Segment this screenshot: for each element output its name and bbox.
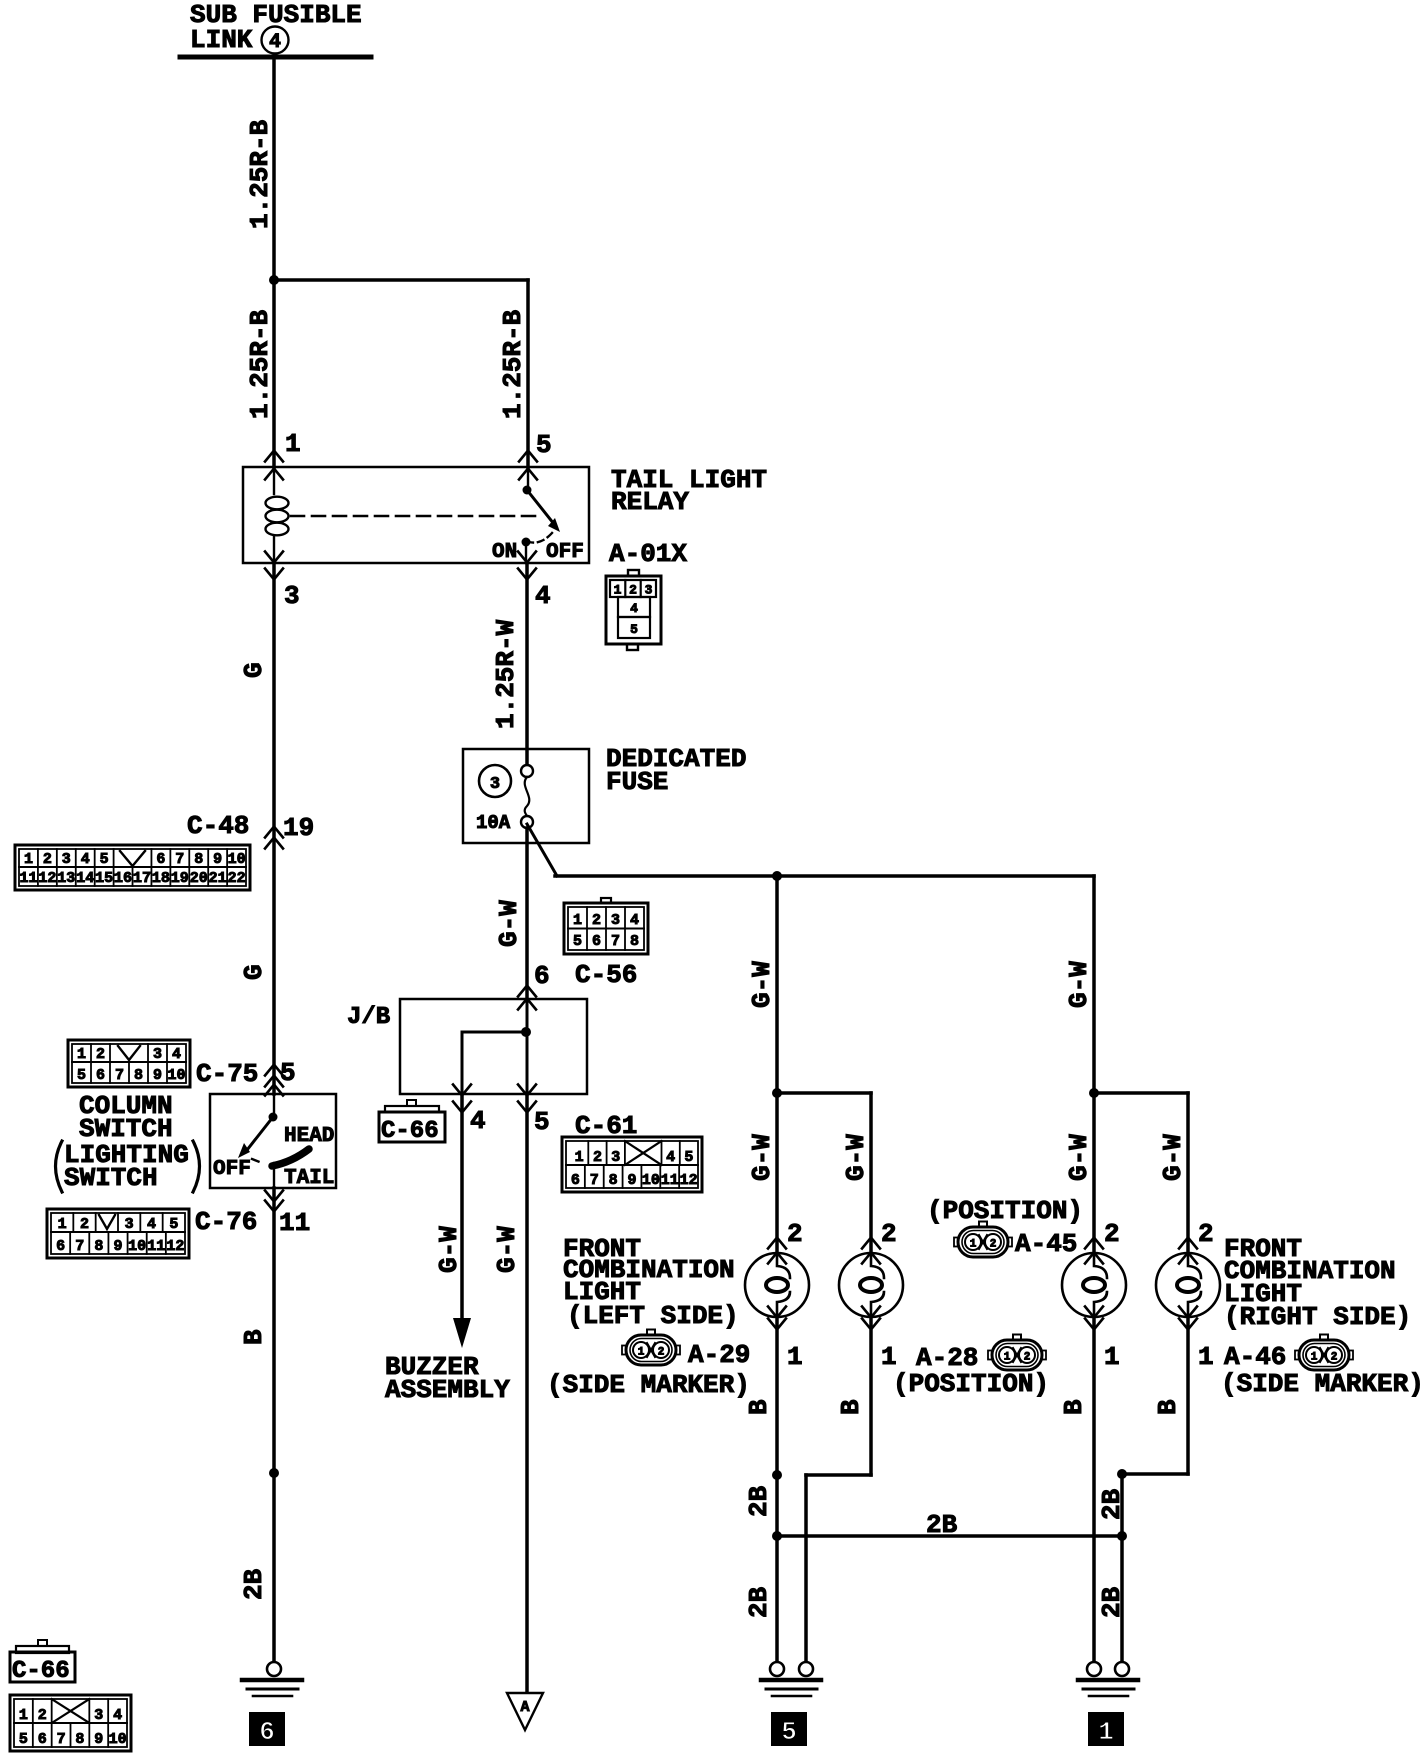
svg-text:G: G	[239, 964, 269, 980]
wire label G-W down branch	[492, 1226, 522, 1273]
ground ref box 5	[771, 1712, 807, 1747]
svg-text:8: 8	[630, 933, 639, 950]
column switch OFF label	[213, 1158, 251, 1181]
wire G from relay pin 3	[272, 563, 276, 1094]
svg-text:2: 2	[38, 1707, 47, 1724]
connector C-56 crossing arrows	[518, 986, 536, 1010]
connector A-45 label	[1015, 1229, 1077, 1259]
lamp front combination light right position bulb	[1062, 1238, 1126, 1330]
wire B lamp1 return	[775, 1317, 779, 1663]
svg-text:(SIDE MARKER): (SIDE MARKER)	[1221, 1369, 1424, 1399]
svg-text:5: 5	[536, 430, 552, 460]
svg-text:B: B	[744, 1399, 774, 1415]
relay pin 5 terminal arrows	[519, 451, 537, 480]
wire label 2B right lower	[1097, 1586, 1127, 1618]
relay actuation dashed link	[291, 515, 541, 518]
svg-text:2: 2	[1331, 1352, 1338, 1364]
junction block J/B box	[400, 999, 587, 1094]
connector C-48 label	[187, 811, 249, 841]
node junction left 2B	[269, 1468, 279, 1478]
svg-text:TAIL: TAIL	[284, 1167, 334, 1190]
svg-text:6: 6	[534, 961, 550, 991]
svg-text:1.25R-W: 1.25R-W	[491, 619, 521, 729]
svg-text:4: 4	[470, 1106, 486, 1136]
svg-text:2: 2	[80, 1216, 89, 1233]
node junction right branch split	[1089, 1088, 1099, 1098]
front combination light left label	[563, 1234, 739, 1331]
svg-text:1: 1	[1098, 1717, 1114, 1747]
svg-text:(POSITION): (POSITION)	[927, 1196, 1083, 1226]
junction block pin 4 arrows	[453, 1085, 471, 1113]
svg-text:10: 10	[228, 851, 246, 868]
svg-text:C-76: C-76	[195, 1207, 257, 1237]
svg-text:G-W: G-W	[1158, 1134, 1188, 1181]
column switch box	[210, 1094, 336, 1188]
connector C-56 pin diagram	[564, 898, 648, 954]
svg-text:2: 2	[96, 1046, 105, 1063]
svg-text:1: 1	[1311, 1352, 1318, 1364]
wire label G-W lamp1	[747, 1134, 777, 1181]
lamp front combination light right side-marker bulb pin 1 label	[1198, 1342, 1214, 1372]
svg-text:2B: 2B	[926, 1510, 958, 1540]
svg-text:OFF: OFF	[546, 541, 584, 564]
svg-text:12: 12	[680, 1172, 698, 1189]
wire label 1.25R-B upper	[245, 119, 275, 229]
svg-text:6: 6	[38, 1731, 47, 1748]
svg-text:14: 14	[76, 870, 94, 887]
svg-text:1: 1	[1104, 1342, 1120, 1372]
svg-text:2: 2	[787, 1219, 803, 1249]
svg-text:2: 2	[1104, 1219, 1120, 1249]
ground ref box 6	[249, 1712, 285, 1747]
svg-text:11: 11	[19, 870, 37, 887]
svg-text:A-45: A-45	[1015, 1229, 1077, 1259]
node junction left ground bus	[772, 1531, 782, 1541]
lamp front combination light left position bulb pin 2 label	[881, 1219, 897, 1249]
svg-text:6: 6	[592, 933, 601, 950]
connector C-56 pin 6 label	[534, 961, 550, 991]
svg-text:5: 5	[77, 1067, 86, 1084]
lamp front combination light right side-marker bulb	[1156, 1238, 1220, 1330]
connector C-75 label	[196, 1059, 258, 1089]
svg-text:9: 9	[627, 1172, 636, 1189]
wire branch to lamp 2	[777, 1093, 871, 1253]
svg-text:8: 8	[134, 1067, 143, 1084]
svg-text:1: 1	[575, 1149, 584, 1166]
svg-text:6: 6	[56, 1238, 65, 1255]
dedicated fuse box	[463, 749, 589, 843]
svg-text:(SIDE MARKER): (SIDE MARKER)	[547, 1370, 750, 1400]
ground chassis left	[242, 1662, 302, 1696]
fuse element	[521, 765, 533, 828]
svg-text:ON: ON	[492, 541, 517, 564]
junction block pin 5 arrows	[518, 1085, 536, 1113]
svg-text:1: 1	[1198, 1342, 1214, 1372]
relay connector label A-01X	[609, 539, 687, 569]
svg-text:1.25R-B: 1.25R-B	[245, 119, 275, 229]
relay pin 5 label	[536, 430, 552, 460]
connector A-01X pin diagram	[606, 570, 661, 650]
position left label lower	[893, 1369, 1049, 1399]
relay pin 4 label	[535, 581, 551, 611]
svg-text:4: 4	[630, 601, 638, 616]
svg-text:2: 2	[881, 1219, 897, 1249]
wire G-W to buzzer	[460, 1094, 464, 1322]
svg-text:2: 2	[593, 1149, 602, 1166]
node junction left branch split	[772, 1088, 782, 1098]
wire label B lamp4	[1153, 1399, 1183, 1415]
wire label 1.25R-W	[491, 619, 521, 729]
connector C-48 pin 19 label	[283, 813, 314, 843]
svg-text:G-W: G-W	[494, 900, 524, 947]
svg-text:4: 4	[666, 1149, 675, 1166]
svg-text:(LEFT SIDE): (LEFT SIDE)	[567, 1301, 739, 1331]
lamp front combination light left position bulb pin 1 label	[881, 1342, 897, 1372]
svg-text:8: 8	[94, 1238, 103, 1255]
svg-text:13: 13	[57, 870, 75, 887]
node junction lamp bus left	[772, 871, 782, 881]
fuse number circle	[479, 765, 511, 797]
connector C-76 pin 11 label	[279, 1208, 310, 1238]
ground chassis lamps right	[1078, 1662, 1138, 1696]
wire label 2B left lower	[744, 1586, 774, 1618]
column switch TAIL label	[284, 1167, 334, 1190]
svg-text:1: 1	[787, 1342, 803, 1372]
connector A-45 icon	[954, 1222, 1012, 1258]
svg-text:1: 1	[19, 1707, 28, 1724]
svg-text:2: 2	[43, 851, 52, 868]
lamp front combination light right side-marker bulb pin 2 label	[1198, 1219, 1214, 1249]
svg-text:OFF: OFF	[213, 1158, 251, 1181]
svg-text:2: 2	[990, 1239, 997, 1251]
junction block internal wiring	[462, 999, 531, 1094]
wire G-W right lamp feed	[1092, 876, 1096, 1253]
front combination light right label	[1224, 1234, 1411, 1332]
connector A-46 icon	[1295, 1335, 1353, 1371]
svg-text:1: 1	[285, 429, 301, 459]
svg-text:1: 1	[970, 1239, 977, 1251]
relay ON label	[492, 541, 517, 564]
wire label G-W buzzer branch	[434, 1226, 464, 1273]
svg-text:10: 10	[109, 1731, 127, 1748]
svg-text:5: 5	[100, 851, 109, 868]
wire G-W left lamp feed	[775, 876, 779, 1253]
node junction right ground bus	[1117, 1531, 1127, 1541]
svg-text:1: 1	[614, 583, 622, 598]
wire label 2B left upper	[744, 1485, 774, 1517]
lamp front combination light right position bulb pin 1 label	[1104, 1342, 1120, 1372]
wire from fuse to lamp bus	[527, 824, 1094, 876]
svg-text:16: 16	[114, 870, 132, 887]
svg-text:6: 6	[96, 1067, 105, 1084]
node junction lamp1 tie	[772, 1470, 782, 1480]
svg-text:C-66: C-66	[12, 1658, 70, 1685]
svg-text:10: 10	[128, 1238, 146, 1255]
wire 1.25R-W relay pin4 to fuse	[525, 563, 529, 766]
wire B lamp3 return	[1092, 1317, 1096, 1663]
wire B lamp2 return	[806, 1317, 871, 1663]
svg-text:5: 5	[534, 1107, 550, 1137]
svg-text:18: 18	[152, 870, 170, 887]
svg-text:3: 3	[611, 1149, 620, 1166]
svg-text:B: B	[1153, 1399, 1183, 1415]
wire B lamp4 return	[1122, 1317, 1188, 1663]
connector C-76 crossing arrows	[265, 1191, 283, 1212]
svg-text:4: 4	[113, 1707, 122, 1724]
svg-text:G: G	[239, 662, 269, 678]
relay name label	[611, 465, 767, 517]
svg-text:2: 2	[629, 583, 637, 598]
connector A-28 label	[916, 1343, 978, 1373]
wire label G-W above C-56	[494, 900, 524, 947]
relay OFF label	[546, 541, 584, 564]
wire label G upper	[239, 662, 269, 678]
svg-text:1: 1	[77, 1046, 86, 1063]
svg-text:G-W: G-W	[1064, 1134, 1094, 1181]
svg-text:5: 5	[781, 1717, 797, 1747]
svg-text:4: 4	[81, 851, 90, 868]
svg-text:G-W: G-W	[434, 1226, 464, 1273]
relay pin 3 terminal arrows	[265, 552, 283, 580]
svg-text:C-75: C-75	[196, 1059, 258, 1089]
svg-text:21: 21	[209, 870, 227, 887]
svg-text:12: 12	[166, 1238, 184, 1255]
lamp front combination light left position bulb	[839, 1238, 903, 1330]
connector C-66 badge upper	[379, 1100, 445, 1145]
connector C-48 pin diagram	[15, 845, 250, 890]
svg-text:8: 8	[194, 851, 203, 868]
node junction lamp4 tie	[1117, 1469, 1127, 1479]
svg-text:5: 5	[573, 933, 582, 950]
svg-text:A-29: A-29	[688, 1340, 750, 1370]
svg-text:5: 5	[630, 622, 638, 637]
svg-text:7: 7	[175, 851, 184, 868]
lamp front combination light left side-marker bulb pin 2 label	[787, 1219, 803, 1249]
wire label 1.25R-B lower-left	[245, 309, 275, 419]
svg-text:2B: 2B	[1097, 1586, 1127, 1618]
connector C-66 badge lower	[10, 1640, 75, 1685]
svg-text:7: 7	[590, 1172, 599, 1189]
fuse name label	[606, 744, 746, 797]
relay pin 4 terminal arrows	[518, 552, 536, 580]
svg-text:22: 22	[228, 870, 246, 887]
svg-text:A-46: A-46	[1224, 1342, 1286, 1372]
wire branch to lamp 4	[1094, 1093, 1188, 1253]
tail light relay box	[243, 467, 589, 563]
svg-text:5: 5	[169, 1216, 178, 1233]
svg-text:2B: 2B	[1097, 1488, 1127, 1520]
svg-text:6: 6	[259, 1717, 275, 1747]
svg-text:3: 3	[490, 775, 500, 794]
svg-text:B: B	[239, 1329, 269, 1345]
svg-text:10: 10	[167, 1067, 185, 1084]
svg-text:G-W: G-W	[747, 1134, 777, 1181]
svg-text:15: 15	[95, 870, 113, 887]
svg-text:19: 19	[283, 813, 314, 843]
svg-text:2B: 2B	[239, 1568, 269, 1600]
svg-text:(RIGHT SIDE): (RIGHT SIDE)	[1224, 1302, 1411, 1332]
junction block pin 5 label	[534, 1107, 550, 1137]
wire G-W to next page	[525, 1094, 529, 1693]
connector C-66 pin diagram lower	[10, 1695, 131, 1751]
svg-text:C-66: C-66	[381, 1118, 439, 1145]
wire label 1.25R-B right branch	[498, 309, 528, 419]
connector C-75 pin diagram	[68, 1040, 190, 1087]
svg-text:5: 5	[684, 1149, 693, 1166]
connector C-76 pin diagram	[47, 1209, 189, 1258]
svg-text:G-W: G-W	[747, 961, 777, 1008]
connector A-46 label	[1224, 1342, 1286, 1372]
svg-text:8: 8	[75, 1731, 84, 1748]
offpage connector A triangle	[507, 1693, 543, 1730]
svg-text:B: B	[1059, 1399, 1089, 1415]
svg-text:1: 1	[573, 912, 582, 929]
svg-text:1: 1	[1004, 1352, 1011, 1364]
lamp front combination light left side-marker bulb	[745, 1238, 809, 1330]
power source label SUB FUSIBLE LINK 4	[180, 0, 371, 57]
wire G-W fuse to J/B	[525, 828, 529, 999]
connector C-76 label	[195, 1207, 257, 1237]
svg-text:2B: 2B	[744, 1485, 774, 1517]
svg-text:11: 11	[661, 1172, 679, 1189]
svg-text:10: 10	[642, 1172, 660, 1189]
wire label G lower	[239, 964, 269, 980]
svg-text:6: 6	[156, 851, 165, 868]
svg-text:7: 7	[611, 933, 620, 950]
column switch name	[56, 1091, 200, 1193]
column switch contact	[238, 1094, 309, 1188]
svg-text:6: 6	[571, 1172, 580, 1189]
wire 2B ground bus	[777, 1534, 1122, 1538]
connector C-61 pin diagram	[562, 1137, 702, 1192]
svg-text:ASSEMBLY: ASSEMBLY	[385, 1375, 510, 1405]
svg-text:3: 3	[125, 1216, 134, 1233]
relay pin 3 label	[284, 581, 300, 611]
svg-text:4: 4	[172, 1046, 181, 1063]
svg-text:9: 9	[213, 851, 222, 868]
svg-text:3: 3	[611, 912, 620, 929]
connector C-56 label	[575, 960, 637, 990]
connector C-48 crossing arrows	[265, 827, 283, 849]
node junction at top split	[269, 275, 279, 285]
connector C-75 crossing arrows	[265, 1065, 283, 1087]
svg-text:1.25R-B: 1.25R-B	[245, 309, 275, 419]
svg-text:1: 1	[881, 1342, 897, 1372]
svg-text:C-56: C-56	[575, 960, 637, 990]
svg-text:B: B	[836, 1399, 866, 1415]
svg-text:2: 2	[658, 1347, 665, 1359]
relay pin 1 terminal arrows	[265, 451, 283, 480]
svg-text:1: 1	[58, 1216, 67, 1233]
svg-text:3: 3	[62, 851, 71, 868]
buzzer assembly label	[385, 1352, 510, 1405]
svg-text:9: 9	[153, 1067, 162, 1084]
svg-text:C-48: C-48	[187, 811, 249, 841]
relay switch contact	[522, 467, 561, 563]
wire label 2B left	[239, 1568, 269, 1600]
wire 1.25R-B left vertical	[272, 57, 276, 467]
svg-text:20: 20	[190, 870, 208, 887]
svg-text:9: 9	[94, 1731, 103, 1748]
svg-text:11: 11	[147, 1238, 165, 1255]
connector A-29 label	[688, 1340, 750, 1370]
connector A-28 icon	[988, 1335, 1046, 1371]
svg-text:3: 3	[284, 581, 300, 611]
wire label G-W lamp4	[1158, 1134, 1188, 1181]
junction block pin 4 label	[470, 1106, 486, 1136]
svg-text:17: 17	[133, 870, 151, 887]
lamp front combination light right position bulb pin 2 label	[1104, 1219, 1120, 1249]
wire label G-W right feed	[1064, 961, 1094, 1008]
lamp front combination light left side-marker bulb pin 1 label	[787, 1342, 803, 1372]
svg-text:A: A	[520, 1699, 529, 1716]
wire label G-W lamp2	[841, 1134, 871, 1181]
wire label G-W left feed	[747, 961, 777, 1008]
side marker right label	[1221, 1369, 1424, 1399]
ground chassis lamps left	[761, 1662, 821, 1696]
svg-text:4: 4	[269, 31, 281, 54]
svg-text:HEAD: HEAD	[284, 1125, 334, 1148]
position right label upper	[927, 1196, 1083, 1226]
svg-text:2: 2	[1024, 1352, 1031, 1364]
svg-text:3: 3	[645, 583, 653, 598]
relay coil	[266, 467, 289, 563]
svg-text:G-W: G-W	[841, 1134, 871, 1181]
junction block label	[347, 1004, 390, 1031]
svg-text:2B: 2B	[744, 1586, 774, 1618]
svg-text:5: 5	[280, 1058, 296, 1088]
connector C-75 pin 5 label	[280, 1058, 296, 1088]
svg-text:9: 9	[113, 1238, 122, 1255]
svg-text:3: 3	[153, 1046, 162, 1063]
svg-text:FUSE: FUSE	[606, 767, 668, 797]
svg-text:4: 4	[535, 581, 551, 611]
svg-text:4: 4	[147, 1216, 156, 1233]
svg-text:1: 1	[638, 1347, 645, 1359]
svg-text:1.25R-B: 1.25R-B	[498, 309, 528, 419]
fuse rating label 10A	[476, 812, 511, 834]
wire branch horizontal to relay pin 5	[274, 280, 528, 467]
svg-text:7: 7	[115, 1067, 124, 1084]
relay pin 1 label	[285, 429, 301, 459]
svg-text:2: 2	[1198, 1219, 1214, 1249]
svg-text:3: 3	[94, 1707, 103, 1724]
svg-text:11: 11	[279, 1208, 310, 1238]
svg-text:J/B: J/B	[347, 1004, 390, 1031]
svg-text:10A: 10A	[476, 812, 511, 834]
svg-text:A-01X: A-01X	[609, 539, 687, 569]
svg-text:12: 12	[38, 870, 56, 887]
svg-text:1: 1	[24, 851, 33, 868]
wire label 2B right upper	[1097, 1488, 1127, 1520]
wire label B lamp2	[836, 1399, 866, 1415]
svg-text:G-W: G-W	[1064, 961, 1094, 1008]
svg-text:5: 5	[19, 1731, 28, 1748]
svg-text:2: 2	[592, 912, 601, 929]
svg-text:4: 4	[630, 912, 639, 929]
wire label G-W lamp3	[1064, 1134, 1094, 1181]
svg-text:SWITCH: SWITCH	[64, 1163, 158, 1193]
wire label B lamp1	[744, 1399, 774, 1415]
connector C-61 label	[575, 1111, 637, 1141]
svg-text:(POSITION): (POSITION)	[893, 1369, 1049, 1399]
column switch HEAD label	[284, 1125, 334, 1148]
svg-text:LINK: LINK	[190, 25, 253, 55]
svg-text:7: 7	[57, 1731, 66, 1748]
svg-text:19: 19	[171, 870, 189, 887]
column switch terminal arrow	[265, 1085, 283, 1096]
svg-text:RELAY: RELAY	[611, 487, 689, 517]
